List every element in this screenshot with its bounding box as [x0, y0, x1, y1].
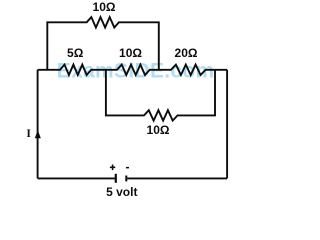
svg-text:10Ω: 10Ω: [93, 0, 116, 14]
svg-text:5 volt: 5 volt: [106, 185, 137, 199]
svg-text:20Ω: 20Ω: [175, 46, 198, 60]
svg-text:5Ω: 5Ω: [67, 46, 84, 60]
svg-text:10Ω: 10Ω: [119, 46, 142, 60]
svg-text:10Ω: 10Ω: [147, 123, 170, 137]
svg-text:I: I: [26, 128, 31, 140]
